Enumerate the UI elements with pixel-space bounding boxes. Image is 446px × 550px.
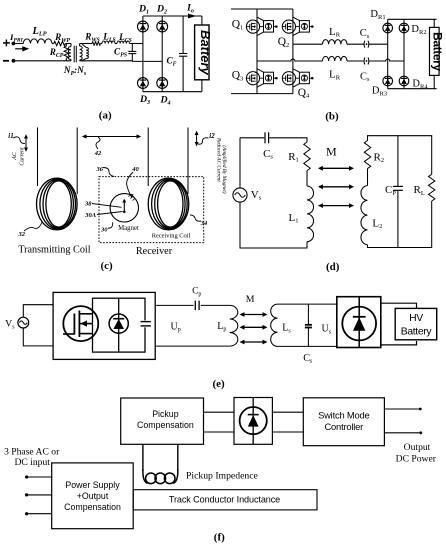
wire pc to diode top	[204, 411, 235, 413]
label M e	[246, 294, 255, 305]
svg-text:36: 36	[95, 166, 103, 173]
label L_p	[217, 321, 226, 333]
transistor Q2	[282, 17, 313, 35]
inductor L2	[361, 186, 368, 245]
label L_LP	[32, 26, 47, 38]
wire output top	[384, 408, 421, 411]
diode D2	[157, 21, 168, 32]
wire right leg	[292, 9, 294, 94]
wire	[52, 43, 54, 45]
inductor L_LP	[23, 39, 52, 44]
wire	[101, 43, 103, 45]
label R2	[374, 151, 385, 164]
label Transmitting Coil	[18, 245, 91, 256]
label DR3	[372, 86, 387, 98]
diode rect e	[342, 297, 376, 348]
label Q1	[232, 19, 244, 32]
label Q3	[232, 70, 244, 83]
svg-text:Pickup Impedence: Pickup Impedence	[186, 471, 258, 482]
magnet circle	[110, 194, 138, 222]
svg-text:HV: HV	[409, 313, 423, 324]
label 34 with leader	[190, 215, 208, 227]
inverter box	[53, 292, 155, 359]
wire	[201, 304, 230, 306]
label L1	[289, 212, 299, 225]
wire sec bottom	[278, 345, 338, 347]
label Q4	[298, 87, 310, 100]
node + terminal	[3, 40, 15, 47]
diode box f	[234, 398, 272, 445]
transistor Q1	[246, 17, 277, 35]
inductor L_R top	[323, 40, 347, 45]
wire rect out bottom	[381, 341, 417, 345]
wire bridge mid leg	[161, 16, 163, 92]
capacitor C_s top	[364, 41, 369, 48]
pickup coil	[143, 469, 178, 484]
label Magnet	[118, 225, 139, 232]
magnet hatching	[129, 194, 136, 201]
label L_R top	[329, 26, 341, 39]
transmitting coil	[37, 178, 78, 230]
wire	[347, 60, 364, 62]
label R_WP	[54, 32, 70, 44]
wire bottom rail	[231, 93, 293, 95]
label C_PS	[114, 47, 127, 59]
leader i1	[13, 137, 25, 144]
node - terminal	[3, 59, 15, 63]
wire rect left leg	[387, 19, 389, 88]
label R_CP	[49, 47, 64, 59]
label U_s	[322, 324, 332, 336]
svg-text:Transmitting Coil: Transmitting Coil	[18, 245, 91, 256]
inductor L_s	[271, 304, 278, 346]
svg-text:Current: Current	[20, 147, 26, 166]
svg-text:i1: i1	[8, 132, 13, 140]
label L_CS	[118, 32, 132, 44]
label DR1	[370, 9, 385, 21]
label 30 with leader	[100, 222, 113, 233]
i2 double arrow	[195, 131, 199, 147]
wire battery top	[201, 16, 203, 25]
svg-text:Battery: Battery	[401, 326, 433, 337]
svg-text:(c): (c)	[100, 260, 113, 272]
label 36 with leader	[95, 166, 114, 177]
coupling arrows d	[318, 166, 354, 208]
input line 3	[25, 512, 52, 515]
caption (a)	[99, 110, 112, 122]
input line 2	[25, 493, 52, 496]
label I_o	[186, 4, 194, 15]
wire rect bottom rail	[388, 88, 437, 90]
svg-text:(a): (a)	[99, 110, 112, 122]
svg-text:Compensation: Compensation	[137, 420, 194, 430]
source V_s e	[18, 317, 29, 328]
svg-text:(e): (e)	[212, 378, 225, 390]
battery b	[430, 27, 445, 75]
wire up top	[155, 304, 193, 306]
label NP:NS	[63, 65, 87, 77]
label Reduced AC Current	[215, 137, 221, 183]
arrow I_o	[188, 14, 197, 19]
diode D e	[109, 298, 128, 352]
wire right loop	[368, 136, 432, 248]
wire top rail	[143, 15, 202, 17]
wire left loop	[240, 138, 307, 248]
label C_F	[166, 56, 176, 68]
svg-text:30: 30	[100, 227, 108, 234]
receiving coil	[148, 178, 189, 230]
label V_s e	[5, 319, 15, 331]
label 42 with leader	[94, 137, 102, 157]
label C_s top	[360, 28, 370, 40]
resistor R_CP	[64, 44, 68, 61]
svg-text:32: 32	[17, 231, 25, 238]
svg-text:(b): (b)	[325, 111, 339, 123]
label i2	[209, 132, 215, 140]
transformer secondary winding	[80, 44, 83, 61]
label 30A with leader	[84, 212, 122, 220]
label U_p	[170, 321, 180, 333]
wire	[115, 43, 117, 45]
wire diode to smc bottom	[272, 431, 303, 433]
label L_s	[282, 323, 291, 335]
magnetizing inductance	[82, 44, 89, 61]
wire pc to diode bottom	[204, 431, 235, 433]
label L_R bottom	[329, 69, 341, 82]
capacitor C_s e	[305, 304, 312, 346]
label C_s bottom	[360, 71, 370, 83]
source V_s	[233, 188, 247, 202]
receiver dashed box	[99, 177, 204, 243]
svg-text:Battery: Battery	[198, 30, 213, 76]
svg-text:Switch Mode: Switch Mode	[318, 409, 369, 420]
svg-text:Battery: Battery	[431, 32, 445, 71]
svg-text:DC input: DC input	[14, 457, 50, 468]
svg-text:Track Conductor Inductance: Track Conductor Inductance	[169, 494, 280, 504]
label C_P d	[385, 184, 396, 197]
inductor L_CS	[117, 41, 129, 44]
wire	[130, 43, 143, 45]
wire bottom rail	[143, 91, 202, 93]
label C_p	[192, 287, 201, 298]
transistor Q3	[246, 69, 277, 88]
wire battery bottom	[201, 80, 203, 92]
wire	[347, 43, 364, 45]
caption (f)	[214, 532, 225, 544]
svg-text:Controller: Controller	[324, 421, 363, 432]
HV battery box	[395, 308, 437, 339]
wire pickup right	[177, 444, 179, 471]
switch mode controller box	[303, 398, 384, 446]
svg-text:AC: AC	[12, 152, 18, 161]
svg-text:38: 38	[84, 201, 92, 208]
svg-text:+Output: +Output	[77, 491, 109, 501]
wire with hop	[369, 59, 404, 61]
wire rect top rail	[388, 18, 437, 20]
wire rect right leg	[403, 19, 405, 88]
current arrow I_PRI	[15, 46, 29, 51]
wire vs top	[23, 305, 53, 318]
magnet arrow	[122, 199, 126, 213]
svg-text:(f): (f)	[214, 532, 225, 544]
label DC input	[14, 457, 50, 468]
label 3 Phase AC or	[4, 447, 60, 458]
label D2	[156, 4, 167, 16]
svg-text:Pickup: Pickup	[152, 409, 179, 419]
label Pickup Impedence	[186, 471, 258, 482]
label D1	[138, 4, 149, 16]
transformer core	[74, 46, 76, 63]
capacitor C_P d	[393, 136, 403, 248]
wire	[369, 43, 388, 45]
wire top rail	[231, 8, 293, 10]
wire battery bottom	[433, 75, 435, 88]
input line 1	[25, 475, 52, 478]
svg-text:42: 42	[94, 150, 102, 157]
label Q2	[278, 36, 290, 49]
svg-text:(Amplified By Magnet): (Amplified By Magnet)	[221, 145, 228, 193]
svg-text:Receiver: Receiver	[136, 246, 173, 257]
diode D4	[157, 78, 168, 89]
coupling arrows e	[240, 312, 268, 344]
label DR4	[412, 79, 428, 91]
wire	[80, 43, 92, 45]
label 32 with leader	[17, 222, 42, 238]
svg-text:M: M	[326, 144, 337, 158]
label L2	[372, 217, 382, 230]
capacitor C_PS	[128, 44, 136, 62]
label Receiving Coil	[152, 233, 191, 240]
label RL	[414, 184, 425, 197]
track conductor box	[133, 490, 317, 510]
wire	[13, 43, 23, 45]
capacitor C_p	[195, 301, 199, 310]
svg-text:Compensation: Compensation	[64, 502, 121, 512]
caption (d)	[326, 261, 340, 273]
wire battery top	[433, 19, 435, 27]
wire bottom	[155, 345, 230, 347]
capacitor in box	[141, 320, 151, 327]
label R1	[288, 151, 299, 164]
resistor R1	[304, 142, 310, 171]
svg-text:Magnet: Magnet	[118, 225, 139, 232]
label AC Current	[12, 147, 26, 166]
svg-text:Reduced AC Current: Reduced AC Current	[215, 137, 221, 183]
transmitting coil leads	[38, 128, 78, 195]
wire	[65, 43, 69, 45]
svg-text:(d): (d)	[326, 261, 340, 273]
capacitor C_s d	[265, 132, 269, 143]
label V_s d	[251, 189, 262, 202]
inductor L_p	[230, 305, 238, 346]
svg-text:M: M	[246, 294, 255, 305]
label Amplified By Magnet	[221, 145, 228, 193]
label I_PRI	[9, 32, 24, 44]
caption (c)	[100, 260, 113, 272]
label D3	[139, 94, 150, 106]
svg-text:3 Phase AC or: 3 Phase AC or	[4, 447, 60, 458]
label Receiver	[136, 246, 173, 257]
wire left leg tap with hop	[257, 59, 323, 61]
label Output	[404, 442, 431, 453]
inductor L1	[307, 186, 314, 242]
wire rect out top	[381, 303, 417, 308]
wire sec top	[278, 303, 338, 305]
wire	[13, 60, 71, 62]
resistor R2	[364, 141, 370, 169]
resistor RL	[429, 174, 435, 201]
wire output bottom	[384, 431, 422, 434]
label 38 with leader	[84, 201, 121, 208]
inductor L_LS	[102, 41, 115, 44]
diode D1	[138, 21, 149, 32]
resistor R_WS	[92, 42, 101, 45]
label C_s e	[303, 353, 313, 365]
receiver coil leads	[148, 128, 188, 195]
label i1	[8, 132, 13, 140]
wire pickup left	[142, 444, 144, 471]
svg-text:Receiving Coil: Receiving Coil	[152, 233, 191, 240]
label R_WS	[84, 32, 100, 44]
arrow 42	[82, 134, 141, 138]
diode DR3	[383, 76, 393, 86]
caption (b)	[325, 111, 339, 123]
label 40 with leader	[127, 166, 140, 198]
svg-text:i2: i2	[209, 132, 215, 140]
label DC Power	[396, 453, 437, 464]
diode DR1	[383, 23, 393, 33]
caption (e)	[212, 378, 225, 390]
capacitor C_F	[179, 16, 187, 92]
wire left leg	[256, 9, 258, 94]
capacitor C_s bottom	[364, 58, 369, 65]
pickup compensation box	[121, 398, 204, 444]
wire right leg tap	[293, 43, 323, 45]
mosfet U1	[63, 306, 98, 341]
diode DR4	[399, 76, 409, 86]
power supply box	[52, 463, 134, 529]
diode D3	[138, 78, 149, 89]
wire bridge left leg	[142, 16, 144, 92]
svg-text:DC Power: DC Power	[396, 453, 437, 464]
inductor L_R bottom	[323, 56, 347, 61]
transistor Q4	[282, 69, 313, 88]
wire secondary bottom	[80, 60, 163, 63]
transformer primary winding	[68, 44, 71, 61]
label L_LS	[102, 32, 115, 44]
leader i2	[198, 138, 209, 144]
inner rectifier box	[93, 298, 146, 352]
svg-text:30A: 30A	[84, 212, 97, 219]
label DR2	[411, 24, 426, 36]
svg-text:Output: Output	[404, 442, 431, 453]
wire vs bottom	[23, 328, 53, 346]
resistor R_WP	[54, 41, 66, 45]
label M d	[326, 144, 337, 158]
label C_s d	[263, 148, 273, 161]
diode DR2	[399, 23, 409, 33]
wire diode to smc top	[272, 411, 303, 413]
rectifier box e	[337, 297, 381, 348]
label D4	[159, 95, 170, 107]
svg-text:Power Supply: Power Supply	[65, 480, 120, 490]
battery	[195, 25, 213, 80]
ac current double arrow	[24, 134, 28, 152]
